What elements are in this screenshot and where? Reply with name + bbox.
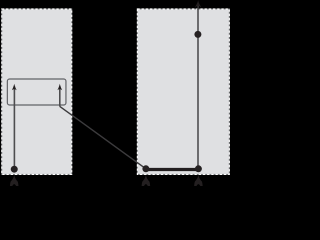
dot on vertical wire (upper) [194,31,201,38]
right up arrowhead inside inner rectangle [57,84,62,91]
thick horizontal segment between the two bottom dots [146,168,199,171]
wire stub from box top to arrowhead [197,3,199,9]
bottom right dot (right end of thick segment) [195,165,202,172]
long vertical wire in right box [197,9,199,169]
up-pointing arrow marker below bottom right dot [194,175,203,187]
left dashed box (region 1) [2,9,72,174]
right dashed box (region 2) [137,9,229,174]
up-pointing arrow marker below bottom-left dot [10,175,19,187]
bottom-left dot [11,166,18,173]
left vertical wire: from bottom dot up into inner rectangle [13,87,15,170]
up-pointing arrow marker below bottom middle dot [142,175,151,187]
diagonal wire from inner rectangle corner to first bottom dot [60,106,146,168]
right up arrow shaft inside inner rectangle [59,87,61,107]
top arrowhead poking above right box [195,0,201,8]
bottom middle dot (left end of thick segment) [142,165,149,172]
inner solid-border rectangle [7,79,66,105]
left up arrowhead inside inner rectangle [12,84,17,91]
